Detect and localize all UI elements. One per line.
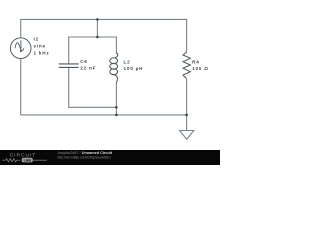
wire: tank bottom stub [115, 83, 117, 115]
node: tank bottom bar junction [115, 106, 118, 109]
ground [180, 131, 194, 140]
svg-text:100 µH: 100 µH [124, 66, 144, 71]
svg-text:22 nF: 22 nF [80, 66, 96, 71]
footer bar [0, 150, 220, 165]
svg-text:sine: sine [34, 44, 46, 49]
wire: right rail lower [186, 79, 188, 115]
node: top stub junction [96, 18, 99, 21]
current source I2 circle [10, 38, 31, 59]
svg-text:R4: R4 [192, 60, 199, 65]
CircuitLab logo resistor zigzag [2, 159, 20, 162]
current source I2 arrow [20, 40, 23, 53]
resistor R4 zigzag [183, 52, 190, 79]
inductor L2 coil [110, 53, 118, 83]
svg-text:http://circuitlab.com/c/8q2sue: http://circuitlab.com/c/8q2suew62hz [57, 155, 111, 159]
svg-text:L2: L2 [124, 60, 131, 65]
svg-text:100 Ω: 100 Ω [192, 66, 209, 71]
node: tank top junction [96, 36, 99, 39]
capacitor C6 plates [59, 63, 79, 65]
svg-text:C6: C6 [80, 59, 87, 64]
wire: tank top bar [69, 37, 117, 64]
wire: tank top stub [96, 19, 98, 37]
CircuitLab logo LAB badge [22, 158, 33, 163]
node: bottom rail junction [115, 114, 118, 117]
wire: top rail [21, 19, 187, 52]
current source I2 sine glyph [15, 43, 24, 51]
svg-text:I2: I2 [34, 37, 39, 42]
svg-text:LAB: LAB [24, 158, 32, 162]
wire: ground stub [186, 115, 188, 131]
svg-text:1 kHz: 1 kHz [34, 51, 50, 56]
wire: tank bottom bar [69, 67, 117, 107]
wire: bottom rail [21, 114, 187, 116]
wire: left rail lower [20, 59, 22, 115]
CircuitLab logo tail wire [33, 159, 47, 161]
node: ground junction [185, 114, 188, 117]
